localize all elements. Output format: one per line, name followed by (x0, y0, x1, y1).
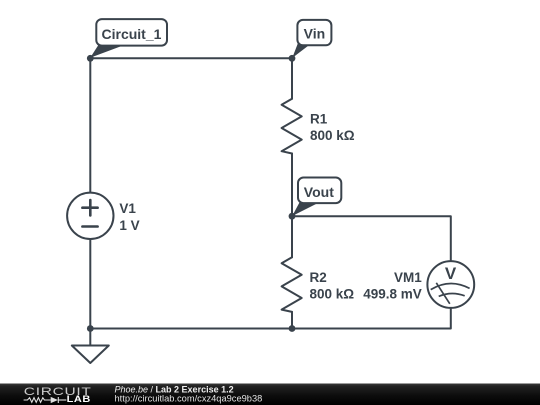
svg-text:800 kΩ: 800 kΩ (310, 287, 355, 302)
svg-text:Circuit_1: Circuit_1 (102, 26, 162, 42)
svg-text:499.8 mV: 499.8 mV (363, 287, 422, 302)
svg-text:http://circuitlab.com/cxz4qa9c: http://circuitlab.com/cxz4qa9ce9b38 (115, 394, 263, 404)
svg-text:VM1: VM1 (394, 270, 422, 285)
svg-text:V: V (445, 264, 457, 283)
svg-text:Vout: Vout (304, 184, 334, 200)
svg-text:V1: V1 (119, 201, 136, 216)
svg-text:LAB: LAB (67, 395, 91, 405)
svg-text:R2: R2 (310, 270, 327, 285)
svg-text:1 V: 1 V (119, 218, 139, 233)
svg-text:R1: R1 (310, 111, 328, 126)
svg-text:Vin: Vin (304, 26, 326, 42)
svg-text:800 kΩ: 800 kΩ (310, 128, 355, 143)
